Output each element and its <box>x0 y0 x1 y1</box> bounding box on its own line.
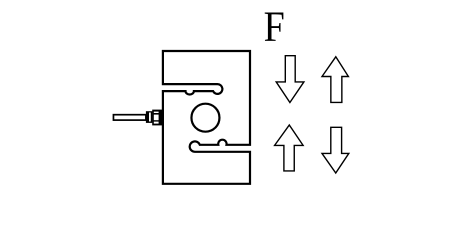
cable tube <box>113 115 145 120</box>
arrow down (bottom-right) <box>322 127 349 173</box>
load cell body (S-beam outline) <box>163 51 250 184</box>
arrow up (top-right) <box>322 57 348 103</box>
svg-text:F: F <box>264 2 285 51</box>
arrow down (top-left) <box>276 56 304 103</box>
gland cylinder <box>146 111 153 123</box>
central hole <box>191 104 219 132</box>
gland nut <box>152 110 164 126</box>
arrow up (bottom-left) <box>275 125 304 171</box>
